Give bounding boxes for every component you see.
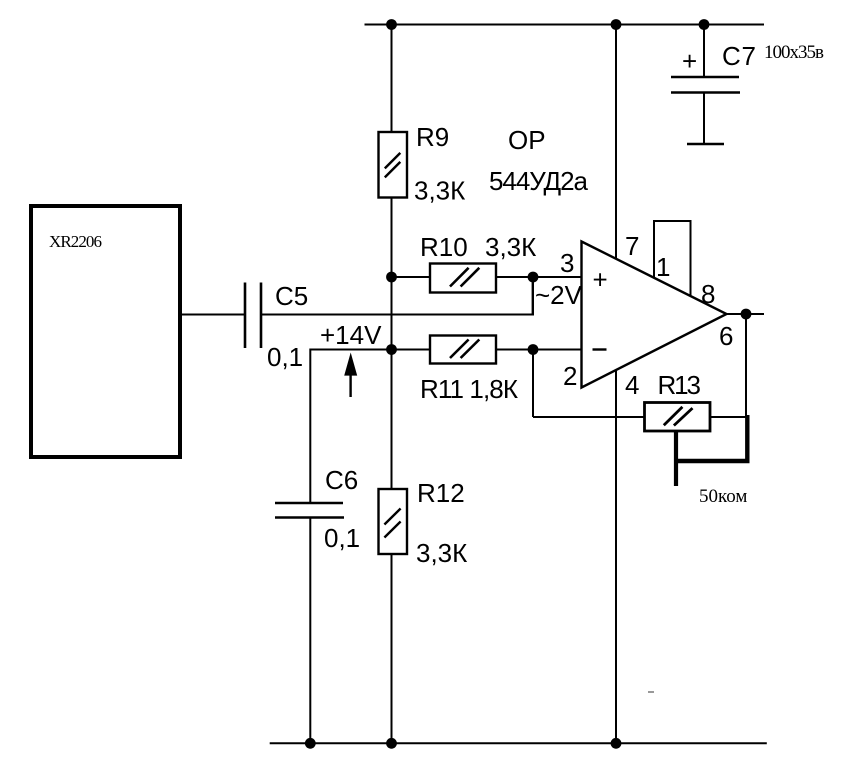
svg-text:1: 1	[656, 252, 670, 282]
svg-text:3,3К: 3,3К	[485, 232, 536, 262]
stray mark artifact	[648, 691, 654, 693]
svg-text:2: 2	[563, 361, 577, 391]
potentiometer R13	[645, 403, 711, 432]
junction dot top rail / C7	[699, 19, 710, 30]
svg-text:6: 6	[719, 321, 733, 351]
wire C7 top lead	[703, 25, 705, 78]
wire op-amp output	[727, 313, 765, 315]
svg-text:C6: C6	[325, 465, 358, 495]
pin 1 balance box	[654, 221, 691, 296]
junction dot R10 / C5 / pin 3	[528, 272, 539, 283]
IC XR2206 box	[31, 206, 180, 457]
svg-text:0,1: 0,1	[324, 523, 360, 553]
wire R13 right lead	[710, 416, 748, 418]
svg-text:R11 1,8К: R11 1,8К	[420, 374, 518, 404]
capacitor C5	[245, 283, 261, 349]
wire XR2206 output to C5	[182, 314, 245, 316]
junction dot rail / R11 / +14V	[386, 344, 397, 355]
wire R11 right lead	[496, 349, 533, 351]
svg-text:50ком: 50ком	[699, 486, 747, 507]
wire feedback horizontal to R13	[533, 416, 645, 418]
svg-text:C5: C5	[275, 281, 308, 311]
wire C6 branch vertical	[309, 349, 311, 504]
svg-text:C7: C7	[722, 41, 756, 71]
svg-text:R12: R12	[417, 478, 465, 508]
wire vertical C5 node up to pin3 node	[532, 277, 534, 316]
wire feedback from pin2 node down	[532, 350, 534, 418]
junction dot bottom rail / pin 4 wire	[611, 738, 622, 749]
svg-text:R13: R13	[658, 370, 702, 400]
+14V arrow	[344, 353, 357, 398]
op-amp minus input mark	[593, 348, 607, 350]
svg-text:0,1: 0,1	[267, 342, 303, 372]
capacitor C6	[275, 503, 344, 518]
C7 bottom terminal bar	[687, 143, 724, 146]
wire top positive rail	[365, 24, 765, 26]
wire bottom ground rail	[270, 742, 767, 744]
svg-text:+: +	[593, 265, 608, 295]
resistor R10	[430, 264, 496, 293]
junction dot bottom rail / C6	[305, 738, 316, 749]
resistor R9	[379, 132, 408, 198]
wire output down to R13	[745, 314, 747, 417]
wire thick right vertical of wiper loop	[745, 415, 749, 463]
wire R13 wiper down	[674, 431, 678, 486]
svg-text:~2V: ~2V	[535, 280, 583, 310]
wire pin 7 from top rail to triangle	[615, 25, 617, 259]
svg-text:3,3К: 3,3К	[416, 538, 467, 568]
wire to op-amp pin 2	[533, 349, 582, 351]
wire R10 right lead	[496, 276, 533, 278]
svg-text:8: 8	[701, 279, 715, 309]
wire thick horizontal of wiper loop	[676, 459, 750, 463]
svg-text:+: +	[682, 46, 697, 76]
wire +14V feed to R11	[310, 349, 430, 351]
resistor R11	[430, 336, 496, 364]
svg-text:100x35в: 100x35в	[764, 42, 824, 63]
svg-text:4: 4	[625, 370, 639, 400]
svg-text:+14V: +14V	[320, 320, 382, 350]
wire R10 left lead	[392, 276, 431, 278]
wire to op-amp pin 3	[533, 276, 582, 278]
wire C5 to op-amp input node	[261, 314, 533, 316]
svg-text:544УД2а: 544УД2а	[489, 166, 589, 196]
junction dot rail / R10	[386, 272, 397, 283]
svg-text:ОР: ОР	[508, 125, 546, 155]
wire R12 to bottom rail	[391, 554, 393, 743]
junction dot output node 6	[741, 309, 752, 320]
junction dot bottom rail / R12	[386, 738, 397, 749]
wire C6 to bottom rail	[309, 518, 311, 744]
junction dot R11 / pin 2 / feedback	[528, 344, 539, 355]
wire pin 4 from triangle to bottom rail	[615, 371, 617, 744]
junction dot top rail / pin 7 wire	[611, 19, 622, 30]
wire from top rail to R9	[391, 25, 393, 134]
svg-text:R10: R10	[420, 232, 468, 262]
capacitor C7	[671, 77, 740, 93]
svg-text:3: 3	[560, 248, 574, 278]
svg-text:R9: R9	[416, 122, 449, 152]
op-amp U1 triangle	[582, 242, 727, 388]
junction dot top rail / R9	[386, 19, 397, 30]
wire R9 to R12 (main vertical rail)	[391, 198, 393, 490]
resistor R12	[379, 489, 408, 554]
svg-text:3,3К: 3,3К	[414, 176, 465, 206]
svg-text:XR2206: XR2206	[49, 232, 102, 251]
wire C7 bottom lead	[703, 93, 705, 145]
svg-text:7: 7	[625, 231, 639, 261]
